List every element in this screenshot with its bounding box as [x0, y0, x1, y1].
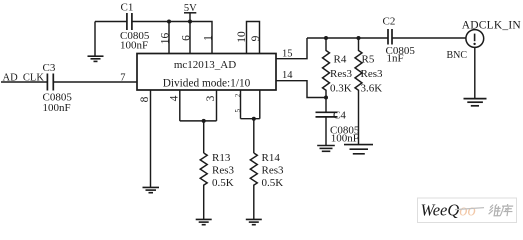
- ground GND1 bars: [88, 56, 104, 61]
- wire: pins 10-9 loop on IC top: [247, 22, 260, 54]
- svg-text:C4: C4: [333, 110, 346, 122]
- svg-text:3.6K: 3.6K: [361, 83, 383, 95]
- watermark ligature stroke through oo: [455, 208, 484, 210]
- svg-text:6: 6: [180, 35, 192, 41]
- connector BNC exclamation mark: [474, 34, 476, 42]
- svg-text:R14: R14: [262, 152, 281, 164]
- wire: R13 to ground: [203, 187, 205, 219]
- svg-text:8: 8: [139, 96, 151, 102]
- svg-text:100nF: 100nF: [331, 132, 359, 144]
- svg-text:15: 15: [282, 49, 293, 60]
- ground GND4 (R14) bars: [246, 219, 262, 224]
- svg-text:100nF: 100nF: [43, 102, 71, 114]
- wire: pin 2 vertical: [240, 90, 242, 119]
- wire: pin 8 vertical to ground: [150, 90, 152, 187]
- node junction pins2-11 to R14: [252, 117, 256, 121]
- node junction rail/R5: [357, 36, 361, 40]
- capacitor C2 plates: [388, 29, 392, 45]
- svg-text:C2: C2: [383, 15, 396, 27]
- wire: output rail to C2: [307, 37, 388, 39]
- wire: C3 to IC pin 7: [54, 81, 137, 83]
- svg-text:0.5K: 0.5K: [262, 177, 284, 189]
- node junction at pin16 wire: [167, 20, 171, 24]
- svg-text:16: 16: [160, 33, 172, 45]
- node junction at pin6 / 5V stub: [188, 20, 192, 24]
- watermark glyph ku: [500, 204, 513, 216]
- wire: pin 4 vertical: [179, 90, 181, 121]
- resistor R14 zigzag: [250, 153, 257, 187]
- svg-text:9: 9: [250, 35, 262, 41]
- ground GND5 (C4) bars: [317, 146, 335, 152]
- svg-text:1nF: 1nF: [387, 52, 404, 64]
- svg-text:C3: C3: [43, 62, 56, 74]
- svg-text:5V: 5V: [184, 3, 197, 14]
- svg-text:ADCLK_IN: ADCLK_IN: [462, 20, 522, 32]
- wire: pin 15 out and up: [276, 38, 307, 59]
- node junction pins4-3 to R13: [202, 119, 206, 123]
- node junction R4/C4/pin14: [324, 96, 328, 100]
- svg-text:14: 14: [282, 70, 293, 81]
- svg-text:2: 2: [234, 93, 242, 97]
- svg-text:3: 3: [205, 95, 217, 101]
- watermark box: [418, 198, 517, 223]
- svg-text:mc12013_AD: mc12013_AD: [174, 59, 236, 71]
- svg-text:0.5K: 0.5K: [212, 177, 234, 189]
- svg-text:Divided mode:1/10: Divided mode:1/10: [163, 77, 251, 89]
- svg-text:Res3: Res3: [212, 165, 235, 177]
- ground GND7 (BNC) bars: [464, 99, 487, 106]
- IC U1 mc12013_AD body: [137, 54, 276, 91]
- capacitor C3 plates: [47, 74, 53, 91]
- connector BNC circle: [466, 30, 484, 48]
- svg-text:1: 1: [202, 35, 214, 41]
- wire: C1 to pin1 corner (5V rail): [132, 22, 212, 54]
- wire: pin 16 vertical: [168, 22, 170, 54]
- wire: pin 3 vertical: [216, 90, 218, 121]
- ground GND1 (top-left, below 5V decoupling rail) stem: [94, 22, 96, 57]
- ground GND6 (R5) bars: [344, 145, 373, 154]
- wire: C2 to BNC: [392, 37, 466, 39]
- wire: junction to R14: [253, 119, 255, 153]
- wire: pin 14 out, down, to R4 bottom node: [276, 81, 326, 98]
- svg-text:R13: R13: [212, 152, 231, 164]
- node junction rail/R4: [324, 36, 328, 40]
- svg-text:C1: C1: [121, 2, 134, 14]
- capacitor C4 (lead and plates): [316, 98, 338, 146]
- svg-text:Res3: Res3: [361, 68, 384, 80]
- svg-text:10: 10: [236, 31, 248, 43]
- ground GND2 (pin 8) bars: [143, 187, 160, 192]
- power 5V symbol: [184, 13, 196, 22]
- svg-text:4: 4: [168, 95, 180, 101]
- wire: BNC to ground: [474, 47, 476, 98]
- resistor R13 zigzag: [200, 153, 207, 187]
- resistor R4 (lead, zigzag, lead): [323, 38, 330, 98]
- svg-text:WeeQoo: WeeQoo: [421, 201, 476, 220]
- svg-text:0.3K: 0.3K: [330, 83, 352, 95]
- svg-text:R4: R4: [334, 54, 347, 66]
- svg-text:BNC: BNC: [447, 50, 468, 61]
- svg-text:100nF: 100nF: [120, 39, 148, 51]
- svg-text:7: 7: [120, 73, 125, 84]
- wire: ground to C1 left plate: [95, 21, 127, 23]
- svg-text:Res3: Res3: [262, 165, 285, 177]
- watermark glyph wei: [488, 204, 501, 215]
- wire: pin 11 vertical: [259, 90, 261, 119]
- svg-text:R5: R5: [362, 54, 375, 66]
- capacitor C1 plates: [127, 13, 132, 30]
- node AD_CLK input wire: [1, 81, 47, 83]
- svg-text:AD_CLK: AD_CLK: [3, 73, 45, 84]
- resistor R5 (lead, zigzag, lead): [355, 38, 362, 144]
- ground GND3 (R13) bars: [196, 219, 212, 224]
- wire: R14 to ground: [253, 187, 255, 219]
- svg-text:5: 5: [234, 109, 242, 113]
- svg-text:Res3: Res3: [330, 68, 353, 80]
- wire: pins 2-11 bottom link: [241, 118, 260, 120]
- wire: pin 6 vertical: [189, 22, 191, 54]
- wire: pins 4-3 bottom link: [180, 120, 217, 122]
- wire: junction to R13: [203, 121, 205, 153]
